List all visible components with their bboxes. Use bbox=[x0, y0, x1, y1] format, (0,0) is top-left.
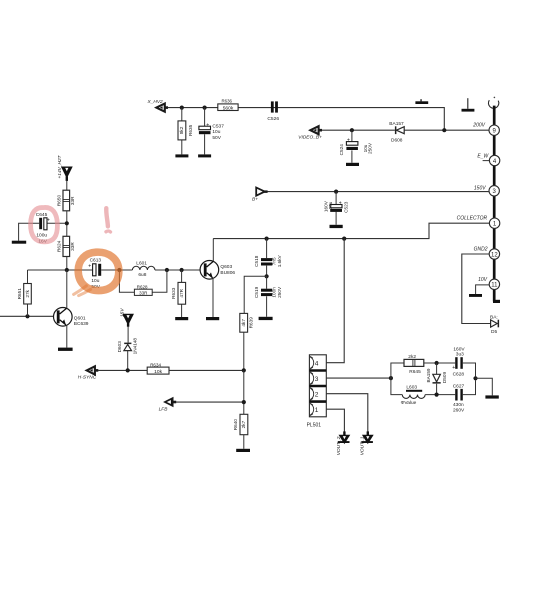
capacitor C523 bbox=[323, 192, 348, 225]
wire video net y=130.2 bbox=[322, 129, 489, 131]
node pin3 bbox=[389, 376, 393, 380]
diode D603 1N4148 bbox=[117, 338, 137, 355]
svg-text:E_W: E_W bbox=[477, 153, 489, 159]
svg-text:33R: 33R bbox=[139, 290, 148, 295]
port arrow LFB bbox=[159, 398, 177, 413]
svg-text:2: 2 bbox=[315, 392, 319, 399]
wire Q601 base net bbox=[0, 315, 57, 317]
wire top net y=107.6 bbox=[168, 108, 445, 131]
svg-text:8k2: 8k2 bbox=[179, 126, 184, 134]
capacitor C645 bbox=[19, 212, 65, 244]
svg-text:H-SYNC: H-SYNC bbox=[78, 375, 97, 381]
wire R645 to C628 bbox=[424, 363, 476, 376]
wire pin3 down to L603 bbox=[391, 378, 402, 395]
wire mid net y=270 bbox=[28, 269, 204, 271]
resistor R633 bbox=[171, 270, 186, 317]
wire PL pin3 bbox=[326, 377, 391, 379]
svg-text:15V: 15V bbox=[119, 308, 125, 317]
svg-text:R624: R624 bbox=[56, 240, 61, 252]
highlight pink circle C645 bbox=[31, 207, 58, 241]
ground C645 bbox=[12, 241, 26, 244]
ground R640 bbox=[236, 449, 250, 452]
svg-text:VOUT_1: VOUT_1 bbox=[359, 436, 365, 455]
port arrow B+ bbox=[252, 188, 268, 203]
node D509 top bbox=[435, 361, 439, 365]
node video-2 bbox=[442, 128, 446, 132]
svg-text:D509: D509 bbox=[442, 372, 447, 384]
connector PL501 bbox=[307, 355, 327, 429]
resistor R636 bbox=[218, 99, 238, 112]
wire R634 to riser bbox=[169, 369, 244, 371]
wire PL pin1 to VOUT_2 bbox=[326, 409, 344, 431]
wire 14V to R650 bbox=[66, 181, 68, 191]
svg-text:+: + bbox=[347, 138, 350, 144]
svg-text:10u: 10u bbox=[212, 129, 220, 135]
node D509 bottom bbox=[435, 393, 439, 397]
node hsync D603 bbox=[126, 368, 130, 372]
wire D603 to hsync bbox=[127, 351, 129, 371]
svg-text:2k2: 2k2 bbox=[408, 354, 416, 360]
svg-text:10u: 10u bbox=[91, 278, 99, 284]
svg-text:GND2: GND2 bbox=[474, 247, 488, 253]
port arrow VOUT_2 bbox=[336, 431, 350, 455]
svg-text:C537: C537 bbox=[212, 123, 224, 129]
svg-text:C645: C645 bbox=[36, 212, 48, 218]
power arrow +14V_H2T bbox=[57, 154, 71, 181]
capacitor C537 bbox=[199, 108, 224, 155]
wire LFB net bbox=[176, 401, 244, 403]
highlight orange circle C613 bbox=[74, 252, 119, 295]
svg-text:R640: R640 bbox=[233, 419, 238, 431]
svg-text:X_HV2: X_HV2 bbox=[147, 99, 164, 105]
port arrow VIDEO_B+ bbox=[298, 126, 322, 140]
wire R640 ground bbox=[243, 435, 245, 449]
svg-text:C627: C627 bbox=[453, 383, 465, 389]
svg-text:R633: R633 bbox=[171, 287, 176, 299]
node collector C518 bbox=[265, 237, 269, 241]
svg-text:C613: C613 bbox=[90, 258, 102, 264]
node L601 right bbox=[165, 268, 169, 272]
wire hsync net bbox=[98, 369, 147, 371]
svg-text:560k: 560k bbox=[223, 106, 234, 112]
node top-1 bbox=[180, 106, 184, 110]
svg-text:250V: 250V bbox=[277, 286, 282, 298]
svg-text:C523: C523 bbox=[343, 201, 348, 213]
svg-text:+: + bbox=[452, 365, 455, 371]
node C627 C628 bbox=[473, 376, 477, 380]
capacitor C628 bbox=[452, 346, 465, 377]
ground R633 bbox=[175, 317, 188, 320]
svg-text:C518: C518 bbox=[254, 255, 259, 267]
svg-text:50V: 50V bbox=[212, 135, 221, 141]
wire PL pin4 riser bbox=[326, 239, 344, 363]
pin 9 bbox=[472, 123, 499, 136]
node mid bus bbox=[65, 268, 69, 272]
svg-text:BA159: BA159 bbox=[426, 368, 431, 382]
resistor R624 bbox=[56, 236, 74, 256]
svg-text:R628: R628 bbox=[137, 284, 148, 289]
resistor R645 bbox=[404, 354, 424, 375]
svg-text:LFB: LFB bbox=[159, 407, 169, 413]
svg-text:10u: 10u bbox=[328, 201, 333, 209]
resistor R639 bbox=[240, 313, 254, 332]
resistor R640 bbox=[233, 414, 248, 434]
connector bus dot top bbox=[494, 97, 496, 99]
highlight pink exclamation bbox=[106, 208, 111, 232]
svg-text:R639: R639 bbox=[249, 317, 254, 329]
svg-text:C526: C526 bbox=[267, 116, 279, 122]
resistor R635 bbox=[178, 108, 193, 155]
wire R624 to mid node bbox=[66, 257, 68, 271]
wire L603 to C627 bbox=[425, 380, 475, 394]
svg-text:11: 11 bbox=[491, 283, 498, 289]
wire C519 to R639 bbox=[244, 276, 266, 313]
ground R635 bbox=[175, 154, 188, 157]
wire riser down bbox=[243, 370, 245, 414]
wire Q603 collector bbox=[212, 239, 214, 261]
svg-text:R651: R651 bbox=[17, 288, 22, 300]
node L601 left bbox=[117, 268, 121, 272]
svg-text:1: 1 bbox=[315, 407, 319, 414]
svg-text:VIDEO_B+: VIDEO_B+ bbox=[298, 135, 322, 141]
capacitor C518 bbox=[254, 239, 282, 277]
ground Q601 bbox=[58, 348, 73, 351]
wire pin12 loop bbox=[462, 254, 491, 324]
svg-text:150V: 150V bbox=[474, 185, 486, 191]
wire Q601 collector bbox=[66, 270, 68, 308]
svg-text:Q603: Q603 bbox=[220, 264, 232, 270]
svg-text:B+: B+ bbox=[252, 196, 258, 202]
wire B+ net y=191.6 bbox=[267, 191, 489, 193]
node top-2 bbox=[203, 106, 207, 110]
resistor R651 bbox=[17, 270, 31, 316]
svg-text:4k7: 4k7 bbox=[241, 319, 246, 327]
resistor R628 bbox=[134, 284, 152, 295]
transistor Q601 bbox=[54, 308, 89, 328]
ground near connector top bbox=[462, 98, 475, 111]
node C518 C519 bbox=[265, 274, 269, 278]
svg-text:D608: D608 bbox=[391, 137, 403, 143]
wire collector net bbox=[213, 223, 489, 238]
svg-text:ΦValue: ΦValue bbox=[401, 400, 417, 406]
port arrow VOUT_1 bbox=[359, 431, 373, 455]
svg-text:BA157: BA157 bbox=[389, 121, 404, 127]
wire pin3 up to R645 bbox=[391, 363, 404, 378]
connector bus line bbox=[493, 106, 496, 302]
transistor Q603 bbox=[200, 261, 235, 280]
svg-text:+: + bbox=[47, 218, 50, 224]
wire 15V to D603 bbox=[127, 326, 129, 342]
svg-text:2k7: 2k7 bbox=[241, 420, 246, 428]
svg-text:4: 4 bbox=[315, 361, 319, 368]
resistor R634 bbox=[147, 362, 169, 375]
port arrow H-SYNC bbox=[78, 366, 98, 380]
svg-text:BC639: BC639 bbox=[74, 321, 89, 327]
diode D5 edge bbox=[490, 314, 499, 335]
svg-text:100n: 100n bbox=[271, 287, 276, 298]
ground C628 net bbox=[485, 395, 498, 398]
svg-text:200V: 200V bbox=[472, 123, 485, 129]
svg-text:1.6kV: 1.6kV bbox=[277, 254, 282, 267]
svg-text:6u8: 6u8 bbox=[138, 272, 146, 278]
svg-text:R650: R650 bbox=[56, 195, 61, 207]
connector bus arc top bbox=[488, 100, 498, 108]
ground C523 bbox=[330, 225, 343, 228]
svg-text:+: + bbox=[206, 122, 209, 128]
resistor R650 bbox=[56, 190, 74, 211]
svg-text:R634: R634 bbox=[150, 362, 161, 367]
connector bus bottom foot bbox=[493, 300, 500, 303]
svg-text:+: + bbox=[339, 200, 342, 206]
inductor L601 bbox=[132, 260, 155, 278]
capacitor C627 bbox=[453, 383, 465, 413]
svg-text:10V: 10V bbox=[478, 277, 488, 283]
pin 4 bbox=[477, 153, 499, 165]
ground C537 bbox=[198, 154, 211, 157]
svg-text:33R: 33R bbox=[70, 242, 75, 251]
diode D509 BA159 bbox=[426, 363, 447, 395]
pin 1 bbox=[457, 216, 500, 229]
svg-text:C628: C628 bbox=[453, 372, 465, 378]
svg-text:PL501: PL501 bbox=[307, 423, 322, 429]
wire Q601 emitter bbox=[66, 325, 68, 348]
svg-text:3u3: 3u3 bbox=[456, 351, 464, 357]
pin 3 bbox=[474, 185, 500, 196]
svg-text:3: 3 bbox=[315, 376, 319, 383]
svg-text:BA:: BA: bbox=[490, 314, 498, 320]
node C645 bus bbox=[65, 221, 69, 225]
wire R639 down bbox=[243, 332, 245, 370]
svg-text:BU806: BU806 bbox=[220, 270, 235, 276]
svg-text:+14V_H2T: +14V_H2T bbox=[57, 154, 63, 178]
svg-text:R636: R636 bbox=[222, 99, 233, 104]
svg-text:C524: C524 bbox=[339, 144, 344, 156]
node video-1 bbox=[350, 128, 354, 132]
svg-text:33R: 33R bbox=[70, 196, 75, 205]
ground pin11 bbox=[469, 294, 482, 297]
node riser hsync bbox=[242, 368, 246, 372]
svg-text:12: 12 bbox=[491, 252, 498, 258]
node R633 bbox=[180, 268, 184, 272]
pin 11 bbox=[478, 277, 499, 289]
node base R651 bbox=[25, 314, 29, 318]
svg-text:L603: L603 bbox=[406, 385, 417, 391]
svg-text:1N4148: 1N4148 bbox=[133, 338, 138, 355]
wire R628 branch bbox=[119, 270, 166, 292]
svg-text:+: + bbox=[88, 264, 91, 270]
svg-text:100u: 100u bbox=[36, 232, 47, 238]
port arrow X_HV2 bbox=[147, 99, 169, 112]
svg-text:10k: 10k bbox=[154, 369, 162, 375]
svg-text:47R: 47R bbox=[179, 288, 184, 297]
capacitor C526 bbox=[267, 101, 279, 121]
ground floating top bbox=[415, 99, 428, 104]
ground Q603 bbox=[206, 317, 219, 320]
ground C524 bbox=[346, 163, 359, 166]
pin 12 bbox=[474, 247, 500, 260]
power arrow 15V bbox=[119, 308, 132, 327]
svg-text:D5: D5 bbox=[491, 329, 497, 335]
node collector PL4 bbox=[342, 237, 346, 241]
wire R650 R624 bbox=[66, 211, 68, 237]
wire pin11 to ground bbox=[476, 285, 490, 294]
wire Q603 emitter bbox=[212, 278, 214, 317]
svg-text:D603: D603 bbox=[117, 341, 122, 353]
wire PL pin2 to VOUT_1 bbox=[326, 394, 368, 432]
svg-text:L601: L601 bbox=[136, 260, 147, 266]
svg-text:Q601: Q601 bbox=[74, 316, 86, 322]
wire to ground right bbox=[476, 378, 493, 395]
svg-text:R635: R635 bbox=[188, 124, 193, 136]
node riser LFB bbox=[242, 400, 246, 404]
svg-text:250V: 250V bbox=[368, 142, 373, 154]
svg-text:R645: R645 bbox=[409, 369, 421, 375]
svg-text:C519: C519 bbox=[254, 286, 259, 298]
capacitor C524 bbox=[339, 130, 373, 163]
svg-text:7n5: 7n5 bbox=[271, 257, 276, 265]
inductor L603 bbox=[401, 385, 426, 406]
svg-text:260V: 260V bbox=[453, 408, 465, 414]
ground C519 bbox=[259, 317, 273, 320]
svg-text:27k: 27k bbox=[25, 289, 30, 297]
svg-text:COLLECTOR: COLLECTOR bbox=[457, 216, 488, 222]
node B+ C523 bbox=[334, 190, 338, 194]
svg-text:430n: 430n bbox=[453, 402, 464, 408]
diode D608 BA157 bbox=[389, 121, 404, 144]
capacitor C519 bbox=[254, 276, 282, 317]
capacitor C613 bbox=[88, 258, 101, 290]
svg-text:VOUT_2: VOUT_2 bbox=[336, 436, 342, 455]
